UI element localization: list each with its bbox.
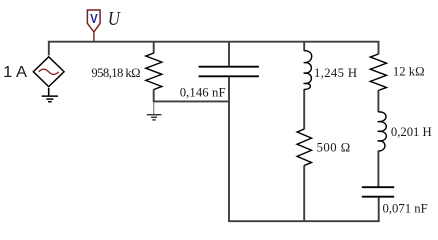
svg-text:958,18 kΩ: 958,18 kΩ [91, 66, 140, 80]
svg-text:0,201 H: 0,201 H [391, 125, 432, 139]
svg-text:V: V [90, 11, 98, 26]
svg-text:U: U [108, 8, 121, 30]
svg-text:12 kΩ: 12 kΩ [393, 64, 425, 78]
svg-text:1 A: 1 A [3, 64, 27, 81]
svg-text:500 Ω: 500 Ω [317, 141, 351, 155]
svg-text:0,146 nF: 0,146 nF [180, 86, 226, 100]
svg-text:0,071 nF: 0,071 nF [383, 201, 428, 215]
svg-text:1,245 H: 1,245 H [314, 66, 357, 80]
